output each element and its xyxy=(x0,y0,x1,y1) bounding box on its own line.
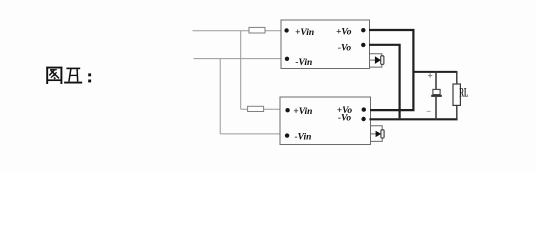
svg-text:+Vin: +Vin xyxy=(295,28,314,38)
resistor R2 (bottom input) xyxy=(248,106,264,111)
wire U1 +Vo to +bus (thick) xyxy=(369,30,413,110)
label RL xyxy=(459,85,468,100)
glyph 五 xyxy=(66,67,80,69)
capacitor C1 polarity - xyxy=(427,110,431,112)
diode D2 triangle + cathode xyxy=(376,130,385,138)
wire bottom -Vin feed xyxy=(220,133,280,135)
capacitor C1 (polarized, top plate box + bottom solid plate) xyxy=(431,71,442,120)
wire vertical drop to bottom -Vin xyxy=(219,59,221,134)
wire U1 -Vo down to -bus (thick) xyxy=(369,45,400,118)
svg-text:+Vo: +Vo xyxy=(336,28,352,38)
capacitor C1 polarity + xyxy=(428,73,432,77)
svg-text:-Vin: -Vin xyxy=(295,132,312,142)
diode D1 triangle + cathode xyxy=(375,56,384,65)
svg-text:-Vo: -Vo xyxy=(338,114,351,124)
module U1 (top DC/DC converter) xyxy=(281,20,370,69)
wire bottom +Vin feed xyxy=(241,108,281,110)
caption 图五： (Figure 5) drawn as strokes xyxy=(46,67,91,84)
svg-text:+Vin: +Vin xyxy=(293,107,312,117)
wire input - feed xyxy=(194,58,282,60)
diode D1 loop (U1 output OR-ing diode) xyxy=(370,54,382,67)
wire input + top feed xyxy=(193,30,282,32)
U2 pin labels xyxy=(293,106,352,142)
wire vertical drop to bottom +Vin xyxy=(240,31,242,109)
fullwidth colon xyxy=(88,73,91,76)
U2 terminal dots xyxy=(285,107,366,137)
wire +bus to load (thick top rail) xyxy=(413,71,457,73)
U1 pin labels xyxy=(295,28,352,68)
wire -Vo bus (thick bottom rail) xyxy=(370,118,458,120)
glyph 图 inner 冬 xyxy=(50,69,57,71)
module U2 (bottom DC/DC converter) xyxy=(280,97,371,145)
resistor R1 (top input) xyxy=(249,27,265,33)
glyph 图 frame xyxy=(47,67,61,84)
diode D2 loop (U2 output OR-ing diode) xyxy=(371,126,383,142)
U1 terminal dots xyxy=(284,28,365,61)
resistor RL (load) xyxy=(453,71,460,120)
svg-text:-Vo: -Vo xyxy=(338,43,351,53)
svg-text:-Vin: -Vin xyxy=(295,58,312,68)
svg-text:RL: RL xyxy=(459,85,468,100)
